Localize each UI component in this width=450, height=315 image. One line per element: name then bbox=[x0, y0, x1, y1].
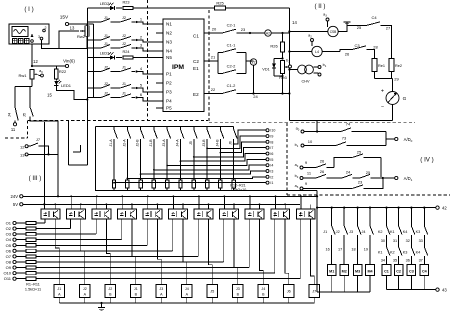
wire relay 10 to ground bus bbox=[288, 298, 290, 304]
svg-text:34: 34 bbox=[381, 258, 385, 262]
svg-text:CSB: CSB bbox=[330, 30, 337, 34]
switch 26a bbox=[316, 159, 334, 168]
switch column J4-B bbox=[215, 127, 223, 181]
wire relay 2 to ground bus bbox=[84, 298, 86, 304]
switch J4 bbox=[7, 87, 19, 122]
wire relay 5 to ground bus bbox=[160, 298, 162, 304]
svg-text:J2-A: J2-A bbox=[122, 139, 126, 147]
resistor R26 bbox=[270, 33, 284, 59]
switch row node 2 (J1 J2) bbox=[87, 34, 163, 42]
svg-text:I2: I2 bbox=[270, 175, 273, 179]
svg-text:73: 73 bbox=[342, 136, 347, 141]
relay coil J6 bbox=[284, 285, 294, 298]
svg-text:36: 36 bbox=[406, 258, 410, 262]
left bus B bbox=[93, 24, 95, 98]
wire opto 4 top stubs bbox=[121, 195, 132, 209]
svg-text:20: 20 bbox=[212, 27, 217, 32]
wire A2 to bus bbox=[271, 32, 289, 34]
terminal 15V bbox=[60, 15, 69, 26]
resistor R18 bbox=[192, 180, 195, 191]
svg-text:J1: J1 bbox=[122, 92, 126, 96]
resistor R14 bbox=[139, 180, 142, 191]
optocoupler U11 bbox=[271, 209, 290, 219]
wire opto input 9 bbox=[248, 219, 250, 268]
switch 23 bbox=[352, 178, 383, 189]
svg-text:Re1: Re1 bbox=[378, 64, 385, 68]
capacitor branch K1/K2 bbox=[390, 207, 402, 265]
transformer CHV bbox=[288, 65, 318, 83]
optocoupler U2 bbox=[41, 209, 60, 219]
wire relay 4 to ground bus bbox=[135, 298, 137, 304]
rail 5V bbox=[23, 203, 300, 205]
relay coil J7 bbox=[309, 285, 319, 298]
bracket mark bbox=[73, 145, 80, 152]
resistor R13 bbox=[126, 180, 129, 191]
svg-text:N5: N5 bbox=[166, 55, 172, 60]
pin 20 wire and switch C2-1 bbox=[204, 23, 265, 35]
terminal a0 left bbox=[39, 69, 44, 77]
svg-text:23: 23 bbox=[241, 27, 246, 32]
svg-text:26: 26 bbox=[320, 159, 325, 164]
svg-text:12: 12 bbox=[33, 59, 38, 64]
svg-text:I7: I7 bbox=[270, 146, 273, 150]
svg-text:O9: O9 bbox=[6, 265, 12, 270]
coil M3 bbox=[353, 265, 362, 292]
svg-text:M2: M2 bbox=[342, 270, 347, 274]
region III top bus bbox=[95, 126, 233, 128]
svg-text:K4: K4 bbox=[416, 251, 421, 255]
terminal 5V bbox=[13, 202, 23, 207]
dashed boundary region II bottom bbox=[209, 122, 415, 124]
terminal a0 region IV bbox=[296, 127, 341, 134]
dashed boundary region IV bottom bbox=[287, 194, 450, 196]
wire opto 7 top stubs bbox=[198, 195, 209, 209]
wire opto output to relay 11 bbox=[311, 219, 315, 285]
svg-text:J1-A: J1-A bbox=[109, 139, 113, 147]
svg-text:A2: A2 bbox=[266, 32, 270, 36]
relay coil J1A bbox=[54, 285, 64, 298]
terminal I7 bbox=[266, 146, 273, 150]
wire relay 7 to ground bus bbox=[211, 298, 213, 304]
switch 24 bbox=[342, 170, 360, 179]
svg-text:J6: J6 bbox=[287, 290, 291, 294]
label R12-R21 bbox=[230, 183, 246, 192]
left bus A bbox=[86, 8, 88, 165]
svg-text:14: 14 bbox=[292, 20, 297, 25]
wire opto 2 top stubs bbox=[70, 195, 81, 209]
svg-text:25: 25 bbox=[357, 150, 362, 155]
switch column J3-B bbox=[202, 127, 210, 181]
svg-text:37: 37 bbox=[419, 258, 423, 262]
terminal b2 region IV bbox=[295, 171, 316, 180]
resistor R16 bbox=[166, 180, 169, 191]
pin 21 wire bbox=[204, 55, 218, 62]
wire fan 6 bbox=[166, 159, 266, 166]
svg-text:18: 18 bbox=[351, 248, 355, 252]
relay coil J2B bbox=[105, 285, 115, 298]
svg-text:C3: C3 bbox=[409, 270, 414, 274]
wire fan 2 bbox=[206, 136, 266, 149]
svg-text:+: + bbox=[381, 89, 384, 95]
relay coil J2A bbox=[80, 285, 90, 298]
switch column J3-A bbox=[162, 127, 170, 181]
switch column J1-A bbox=[109, 127, 117, 181]
optocoupler U7 bbox=[169, 209, 188, 219]
svg-text:30: 30 bbox=[381, 239, 385, 243]
svg-text:19: 19 bbox=[364, 248, 368, 252]
svg-text:C1: C1 bbox=[384, 270, 389, 274]
svg-text:J1: J1 bbox=[323, 230, 327, 234]
terminal 24V bbox=[11, 194, 23, 199]
A/D0 output bbox=[386, 132, 413, 146]
relay coil J4B bbox=[258, 285, 268, 298]
svg-text:42: 42 bbox=[442, 205, 447, 210]
terminal I3 bbox=[266, 170, 273, 174]
node 29 join bbox=[375, 72, 400, 92]
wire fan 8 bbox=[140, 171, 266, 175]
svg-text:P5: P5 bbox=[166, 106, 172, 111]
wire opto input 2 bbox=[70, 219, 72, 229]
svg-text:O4: O4 bbox=[6, 237, 12, 242]
coil C1 bbox=[382, 265, 391, 290]
svg-text:J1: J1 bbox=[122, 82, 126, 86]
svg-text:K2: K2 bbox=[378, 230, 383, 234]
resistor R19 bbox=[205, 180, 208, 191]
svg-text:CHV: CHV bbox=[301, 80, 309, 84]
svg-text:VD1: VD1 bbox=[262, 68, 269, 72]
terminal Vin(6) bbox=[63, 59, 75, 68]
node 12 bbox=[31, 59, 39, 67]
svg-text:R23: R23 bbox=[123, 1, 130, 5]
svg-text:LED2: LED2 bbox=[100, 2, 110, 6]
capacitor branch K4/K3 bbox=[403, 207, 415, 265]
switch column J4-A bbox=[176, 127, 184, 181]
coil C2 bbox=[394, 265, 403, 290]
svg-text:−: − bbox=[381, 104, 384, 110]
resistor Re1 bbox=[372, 59, 385, 72]
svg-text:24V: 24V bbox=[11, 194, 19, 199]
ground near CSB bbox=[338, 22, 350, 32]
scope input arrow bbox=[31, 34, 34, 43]
terminal b3 bbox=[286, 59, 291, 69]
switch 26b bbox=[316, 169, 342, 178]
svg-text:( II ): ( II ) bbox=[315, 3, 326, 10]
wire opto output to relay 3 bbox=[106, 219, 110, 285]
svg-text:J1: J1 bbox=[134, 287, 138, 291]
wire relay 9 to ground bus bbox=[262, 298, 264, 304]
svg-text:I10: I10 bbox=[270, 129, 275, 133]
switch column J5 bbox=[189, 127, 197, 181]
wire opto 6 top stubs bbox=[173, 195, 184, 209]
stub from motor loop to a0 row bbox=[316, 121, 318, 133]
switch C1-1 parallel branch bbox=[218, 43, 246, 74]
svg-text:J5: J5 bbox=[189, 141, 193, 145]
terminal O1 with resistor R1 bbox=[6, 221, 45, 226]
terminal I1 bbox=[266, 181, 273, 185]
svg-text:O10: O10 bbox=[3, 271, 11, 276]
resistor R17 bbox=[179, 180, 182, 191]
dashed boundary region I left corner bbox=[5, 121, 28, 139]
switch row node 6 (J2 J1) bbox=[87, 92, 163, 102]
wire opto input 4 bbox=[121, 219, 123, 240]
wire opto input 6 bbox=[172, 219, 174, 251]
generator G bbox=[381, 89, 407, 121]
svg-text:K3: K3 bbox=[403, 251, 408, 255]
svg-text:26: 26 bbox=[320, 169, 325, 174]
optocoupler U8 bbox=[194, 209, 213, 219]
terminal I9 bbox=[266, 135, 273, 139]
terminal I4 bbox=[266, 164, 273, 168]
coil M2 bbox=[340, 265, 349, 292]
wire opto 1 top stubs bbox=[54, 203, 56, 209]
relay coil J4A bbox=[182, 285, 192, 298]
svg-text:P3: P3 bbox=[166, 90, 172, 95]
switch column J6 bbox=[229, 127, 237, 181]
svg-text:I4: I4 bbox=[270, 164, 273, 168]
svg-text:23: 23 bbox=[358, 180, 363, 185]
svg-text:I5: I5 bbox=[270, 158, 273, 162]
svg-text:J2: J2 bbox=[108, 287, 112, 291]
svg-text:I8: I8 bbox=[270, 140, 273, 144]
scope probe terminal 3 bbox=[38, 35, 43, 40]
svg-text:K4: K4 bbox=[403, 230, 408, 234]
wire relay 8 to ground bus bbox=[237, 298, 239, 304]
svg-text:15: 15 bbox=[47, 93, 52, 98]
svg-text:43: 43 bbox=[442, 287, 447, 292]
svg-text:P1: P1 bbox=[166, 72, 172, 77]
wire 15V to bus bbox=[69, 23, 94, 25]
wire opto input 1 bbox=[44, 219, 46, 223]
pin 22 wire and switch C1-2 bbox=[204, 65, 291, 99]
terminal O6 with resistor R6 bbox=[6, 248, 173, 253]
svg-text:C2-1: C2-1 bbox=[227, 23, 236, 28]
dashed boundary region I right edge bbox=[147, 0, 149, 121]
svg-text:C1-2: C1-2 bbox=[227, 83, 236, 88]
switch column J1-B bbox=[149, 127, 157, 181]
svg-text:J6: J6 bbox=[229, 141, 233, 145]
current sensor CSB bbox=[288, 26, 338, 36]
switch row node 1 (J1 J2) bbox=[87, 16, 163, 24]
svg-text:27: 27 bbox=[386, 26, 391, 31]
svg-text:O8: O8 bbox=[6, 259, 12, 264]
svg-text:J4: J4 bbox=[261, 287, 265, 291]
wire opto 5 top stubs bbox=[147, 195, 158, 209]
svg-text:J2: J2 bbox=[83, 287, 87, 291]
wire region II bottom bbox=[289, 120, 392, 122]
optocoupler U12 bbox=[296, 209, 315, 219]
svg-text:13: 13 bbox=[70, 26, 75, 31]
wire opto output to relay 2 bbox=[81, 219, 85, 285]
svg-text:LED1: LED1 bbox=[61, 83, 72, 88]
svg-text:K1: K1 bbox=[378, 251, 383, 255]
terminal O11 with resistor R11 bbox=[4, 276, 301, 281]
switch C2-2 parallel branch bbox=[218, 53, 246, 74]
svg-text:74: 74 bbox=[346, 122, 351, 127]
svg-text:O6: O6 bbox=[6, 248, 12, 253]
svg-text:J2-B: J2-B bbox=[136, 139, 140, 147]
svg-text:16: 16 bbox=[325, 248, 329, 252]
wire fan 9 bbox=[126, 177, 266, 179]
IPM stub P2 bbox=[156, 82, 163, 84]
svg-text:J4: J4 bbox=[361, 230, 365, 234]
svg-text:J2: J2 bbox=[336, 230, 340, 234]
terminal I5 bbox=[266, 158, 273, 162]
coil M1 bbox=[327, 265, 336, 292]
svg-text:24: 24 bbox=[253, 94, 258, 99]
wire opto output to relay 7 bbox=[209, 219, 213, 285]
wire drop x44 bbox=[43, 122, 45, 209]
svg-text:C2: C2 bbox=[193, 59, 199, 64]
svg-text:1.5kΩ×11: 1.5kΩ×11 bbox=[25, 288, 41, 292]
switch C3 row 26-28 bbox=[322, 43, 378, 59]
svg-text:R25: R25 bbox=[216, 1, 224, 6]
terminal I10 bbox=[266, 129, 275, 133]
svg-text:J1: J1 bbox=[122, 66, 126, 70]
contactor branch J1 bbox=[323, 207, 335, 265]
IPM stub P5 bbox=[156, 107, 163, 109]
svg-text:V2: V2 bbox=[251, 61, 255, 65]
resistor Re2 bbox=[389, 59, 402, 72]
svg-text:J1: J1 bbox=[57, 287, 61, 291]
contactor branch J4 bbox=[361, 207, 373, 265]
switch row node 3 (J1 J2) bbox=[87, 42, 163, 51]
switch row node 5 (J2 J1) bbox=[87, 82, 163, 92]
coil C4 bbox=[420, 265, 429, 290]
inductor L4 bbox=[288, 46, 322, 56]
terminal a2 bbox=[308, 34, 313, 47]
svg-text:O7: O7 bbox=[6, 254, 12, 259]
relay coil J5 bbox=[207, 285, 217, 298]
svg-text:J4-B: J4-B bbox=[215, 139, 219, 147]
svg-text:Rw1: Rw1 bbox=[18, 73, 27, 78]
svg-text:35: 35 bbox=[393, 258, 397, 262]
vertical feed x317 bbox=[316, 191, 318, 293]
switch column J2-B bbox=[136, 127, 144, 181]
svg-text:J3: J3 bbox=[236, 287, 240, 291]
svg-text:G: G bbox=[403, 96, 407, 102]
wire opto output to relay 9 bbox=[260, 219, 264, 285]
switch 74 bbox=[341, 122, 386, 132]
wire opto output to relay 10 bbox=[285, 219, 289, 285]
wire opto input 7 bbox=[197, 219, 199, 257]
svg-text:24: 24 bbox=[346, 170, 351, 175]
svg-text:I3: I3 bbox=[270, 170, 273, 174]
switch 73 bbox=[336, 136, 386, 146]
wire fan 3 bbox=[220, 142, 266, 154]
IPM module U1 bbox=[163, 19, 204, 112]
optocoupler U9 bbox=[220, 209, 239, 219]
svg-text:Re2: Re2 bbox=[395, 64, 402, 68]
svg-text:O11: O11 bbox=[4, 276, 12, 281]
wire fan 7 bbox=[153, 165, 266, 171]
contactor branch J2 bbox=[336, 207, 348, 265]
svg-text:K2: K2 bbox=[390, 251, 395, 255]
svg-text:LED3: LED3 bbox=[100, 52, 110, 56]
wire opto output to relay 1 bbox=[55, 219, 59, 285]
wire relay 3 to ground bus bbox=[109, 298, 111, 304]
coil M4 bbox=[366, 265, 375, 292]
terminal a3 region IV bbox=[295, 181, 352, 190]
svg-text:17: 17 bbox=[338, 248, 342, 252]
svg-text:25: 25 bbox=[366, 170, 371, 175]
diode VD1 bbox=[262, 57, 283, 76]
dashed boundary region IV left bbox=[286, 123, 288, 195]
svg-text:29: 29 bbox=[394, 77, 399, 82]
svg-text:C2: C2 bbox=[396, 270, 401, 274]
ground bus bottom bbox=[59, 302, 314, 304]
capacitor branch K3/K4 bbox=[416, 207, 428, 265]
svg-text:11: 11 bbox=[11, 127, 16, 132]
relay coil J1B bbox=[131, 285, 141, 298]
svg-text:I1: I1 bbox=[270, 181, 273, 185]
terminal O7 with resistor R7 bbox=[6, 254, 199, 259]
wire M group bottom bbox=[317, 291, 370, 293]
terminal O3 with resistor R3 bbox=[6, 232, 96, 237]
terminal I8 bbox=[266, 140, 273, 144]
svg-text:28: 28 bbox=[373, 45, 378, 50]
terminal I6 bbox=[266, 152, 273, 156]
svg-text:J4: J4 bbox=[185, 287, 189, 291]
resistor bus R12-R21 bbox=[110, 190, 318, 192]
svg-text:31: 31 bbox=[393, 239, 397, 243]
wire VD1 Rw3 bottom join bbox=[274, 74, 284, 94]
svg-text:M3: M3 bbox=[355, 270, 360, 274]
scope probe terminal 2 bbox=[43, 26, 47, 32]
switch J5 bbox=[22, 105, 59, 196]
svg-text:N3: N3 bbox=[166, 40, 172, 45]
right bus vertical with node 14 bbox=[289, 8, 297, 121]
svg-text:IPM: IPM bbox=[172, 64, 184, 71]
terminal b1 region IV bbox=[295, 139, 336, 148]
wire relay 1 to ground bus bbox=[58, 298, 60, 304]
wire scope terminal 3 loop bbox=[42, 36, 87, 48]
terminal 11 bbox=[11, 122, 17, 132]
resistor R15 bbox=[152, 180, 155, 191]
resistor R21 bbox=[232, 180, 235, 191]
wire J5 drop bbox=[29, 87, 31, 105]
LED3 and resistor R24 row bbox=[87, 50, 163, 60]
svg-text:P4: P4 bbox=[166, 99, 172, 104]
wire opto output to relay 6 bbox=[183, 219, 187, 285]
potentiometer Rw2 bbox=[77, 24, 89, 39]
svg-text:K1: K1 bbox=[390, 230, 395, 234]
resistor R22 bbox=[55, 66, 67, 79]
optocoupler U6 bbox=[143, 209, 162, 219]
wire opto input 8 bbox=[223, 219, 225, 262]
svg-text:C1: C1 bbox=[193, 34, 199, 39]
svg-text:3: 3 bbox=[38, 35, 40, 39]
potentiometer Rw3 bbox=[279, 61, 288, 81]
svg-text:J3-B: J3-B bbox=[202, 139, 206, 147]
wire opto input 11 bbox=[299, 219, 301, 279]
optocoupler U3 bbox=[67, 209, 86, 219]
ammeter A2 bbox=[265, 30, 271, 36]
svg-text:J1-B: J1-B bbox=[149, 139, 153, 147]
svg-text:Rw2: Rw2 bbox=[77, 34, 86, 39]
switch column J2-A bbox=[122, 127, 130, 181]
svg-text:E2: E2 bbox=[193, 92, 199, 97]
svg-text:O2: O2 bbox=[6, 226, 12, 231]
svg-text:( I ): ( I ) bbox=[24, 6, 33, 13]
svg-text:33: 33 bbox=[419, 239, 423, 243]
svg-text:22: 22 bbox=[211, 87, 216, 92]
svg-text:R26: R26 bbox=[270, 44, 278, 49]
svg-text:K3: K3 bbox=[416, 230, 421, 234]
svg-text:2: 2 bbox=[45, 26, 47, 30]
switch row node 4 (J2 J1) bbox=[87, 66, 163, 75]
rail 24V bbox=[23, 195, 317, 197]
terminal O2 with resistor R2 bbox=[6, 226, 71, 231]
